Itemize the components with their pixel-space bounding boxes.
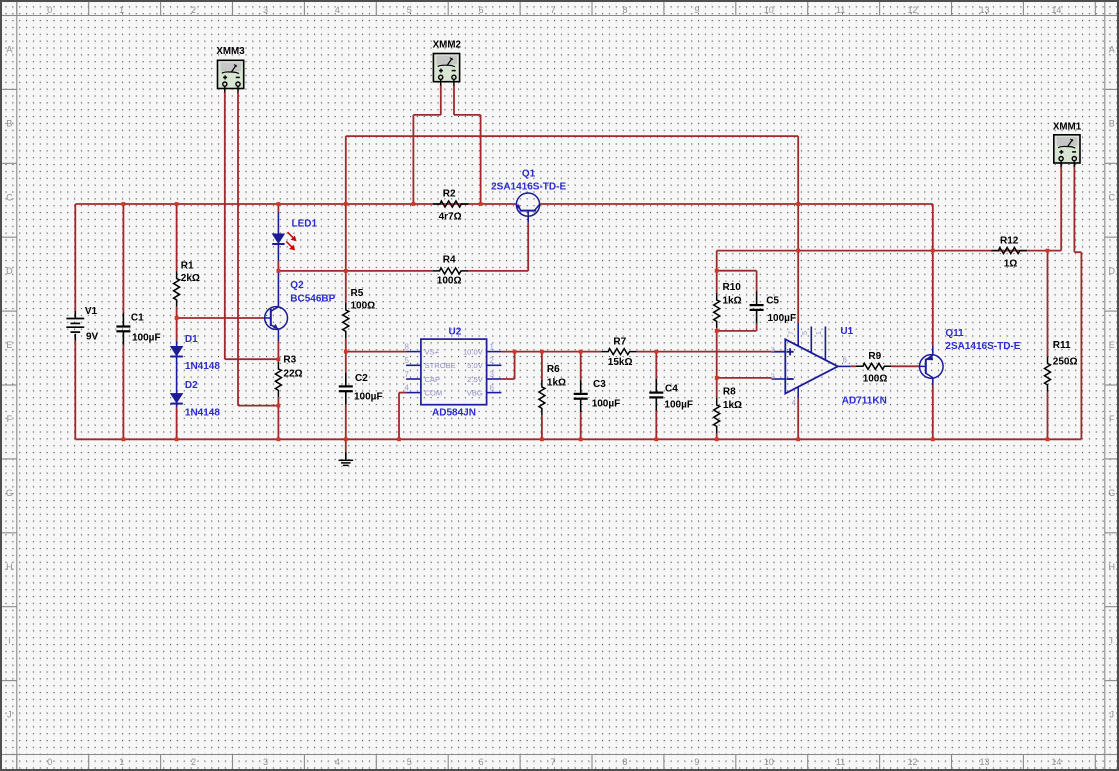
svg-text:14: 14 xyxy=(1051,5,1061,15)
svg-text:7: 7 xyxy=(551,757,556,767)
svg-text:11: 11 xyxy=(836,5,845,15)
svg-text:13: 13 xyxy=(979,5,989,15)
svg-text:9: 9 xyxy=(694,757,699,767)
svg-text:R4: R4 xyxy=(443,255,456,266)
svg-text:R7: R7 xyxy=(613,337,626,348)
svg-text:0: 0 xyxy=(47,5,52,15)
svg-text:3: 3 xyxy=(263,5,268,15)
svg-text:R12: R12 xyxy=(1000,236,1019,247)
svg-text:8: 8 xyxy=(622,757,627,767)
svg-text:G: G xyxy=(6,488,13,498)
svg-text:F: F xyxy=(7,414,13,424)
svg-text:H: H xyxy=(1109,562,1116,572)
svg-text:C1: C1 xyxy=(131,313,144,324)
svg-text:12: 12 xyxy=(908,757,918,767)
svg-text:3: 3 xyxy=(771,345,775,354)
svg-text:AD584JN: AD584JN xyxy=(432,408,476,419)
svg-text:B: B xyxy=(6,118,12,128)
svg-text:CAP: CAP xyxy=(425,375,441,384)
svg-text:22Ω: 22Ω xyxy=(283,369,302,380)
svg-text:H: H xyxy=(6,562,13,572)
svg-text:4: 4 xyxy=(335,5,340,15)
svg-text:100µF: 100µF xyxy=(354,392,383,403)
svg-text:1: 1 xyxy=(814,331,823,335)
svg-text:G: G xyxy=(1108,488,1115,498)
svg-text:J: J xyxy=(7,710,12,720)
svg-text:6: 6 xyxy=(843,356,848,365)
svg-text:I: I xyxy=(1111,636,1114,646)
svg-text:D1: D1 xyxy=(185,334,198,345)
svg-text:100Ω: 100Ω xyxy=(437,276,462,287)
svg-text:8: 8 xyxy=(405,342,410,351)
svg-text:J: J xyxy=(1110,710,1115,720)
svg-text:C4: C4 xyxy=(665,384,678,395)
svg-text:2SA1416S-TD-E: 2SA1416S-TD-E xyxy=(491,182,566,193)
svg-text:VBG: VBG xyxy=(467,388,483,397)
svg-text:9V: 9V xyxy=(86,332,99,343)
svg-text:100µF: 100µF xyxy=(768,313,797,324)
svg-text:5: 5 xyxy=(407,757,412,767)
svg-text:100Ω: 100Ω xyxy=(863,374,888,385)
svg-text:R2: R2 xyxy=(443,189,456,200)
svg-text:C5: C5 xyxy=(766,296,779,307)
svg-text:100µF: 100µF xyxy=(132,333,161,344)
svg-text:2SA1416S-TD-E: 2SA1416S-TD-E xyxy=(945,341,1020,352)
svg-text:2: 2 xyxy=(191,757,196,767)
svg-text:5: 5 xyxy=(407,5,412,15)
svg-text:7: 7 xyxy=(551,5,556,15)
svg-text:2: 2 xyxy=(191,5,196,15)
svg-text:6: 6 xyxy=(479,757,484,767)
svg-text:Q11: Q11 xyxy=(945,328,964,339)
svg-text:1kΩ: 1kΩ xyxy=(723,400,742,411)
svg-text:VS+: VS+ xyxy=(425,347,440,356)
svg-text:7: 7 xyxy=(787,331,796,335)
svg-text:C: C xyxy=(1109,192,1116,202)
svg-text:6: 6 xyxy=(479,5,484,15)
svg-text:D2: D2 xyxy=(185,380,198,391)
svg-text:D: D xyxy=(1109,266,1116,276)
svg-text:100µF: 100µF xyxy=(592,399,621,410)
svg-text:100µF: 100µF xyxy=(664,400,693,411)
svg-text:E: E xyxy=(1109,340,1115,350)
svg-text:12: 12 xyxy=(908,5,918,15)
svg-text:COM: COM xyxy=(425,388,443,397)
svg-text:AD711KN: AD711KN xyxy=(842,396,887,407)
svg-text:6: 6 xyxy=(490,383,495,392)
svg-text:D: D xyxy=(6,266,13,276)
svg-text:Q2: Q2 xyxy=(290,280,304,291)
svg-text:R1: R1 xyxy=(181,261,194,272)
svg-text:2kΩ: 2kΩ xyxy=(181,273,200,284)
svg-text:C2: C2 xyxy=(355,373,368,384)
svg-text:4r7Ω: 4r7Ω xyxy=(439,212,462,223)
svg-text:1kΩ: 1kΩ xyxy=(723,296,742,307)
svg-text:9: 9 xyxy=(694,5,699,15)
svg-text:1kΩ: 1kΩ xyxy=(547,378,566,389)
svg-text:1N4148: 1N4148 xyxy=(185,408,220,419)
svg-text:2: 2 xyxy=(490,356,495,365)
svg-text:14: 14 xyxy=(1051,757,1061,767)
svg-text:1: 1 xyxy=(119,757,124,767)
svg-text:A: A xyxy=(6,44,12,54)
svg-text:7: 7 xyxy=(405,370,410,379)
svg-text:R9: R9 xyxy=(868,351,881,362)
svg-text:5: 5 xyxy=(800,331,809,335)
svg-text:100Ω: 100Ω xyxy=(351,301,376,312)
svg-text:XMM3: XMM3 xyxy=(216,46,245,57)
svg-text:R11: R11 xyxy=(1053,340,1071,351)
svg-text:LED1: LED1 xyxy=(292,219,318,230)
svg-text:R5: R5 xyxy=(351,288,364,299)
svg-text:13: 13 xyxy=(979,757,989,767)
svg-text:2: 2 xyxy=(771,371,775,380)
svg-text:Q1: Q1 xyxy=(522,169,536,180)
svg-text:0: 0 xyxy=(47,757,52,767)
svg-text:8: 8 xyxy=(622,5,627,15)
svg-text:10.0V: 10.0V xyxy=(463,347,484,356)
svg-text:R3: R3 xyxy=(283,355,296,366)
svg-text:1: 1 xyxy=(119,5,124,15)
svg-text:3: 3 xyxy=(263,757,268,767)
svg-text:XMM2: XMM2 xyxy=(433,40,462,51)
svg-text:2.5V: 2.5V xyxy=(467,375,484,384)
svg-text:U2: U2 xyxy=(449,327,462,338)
svg-text:10: 10 xyxy=(764,5,774,15)
svg-text:STROBE: STROBE xyxy=(425,361,456,370)
svg-text:4: 4 xyxy=(405,383,410,392)
svg-text:10: 10 xyxy=(764,757,774,767)
svg-text:R6: R6 xyxy=(547,364,560,375)
svg-text:5.0V: 5.0V xyxy=(467,361,484,370)
svg-text:11: 11 xyxy=(836,757,845,767)
svg-text:4: 4 xyxy=(792,398,797,407)
svg-text:15kΩ: 15kΩ xyxy=(608,357,633,368)
svg-text:F: F xyxy=(1109,414,1115,424)
svg-text:R10: R10 xyxy=(723,282,742,293)
svg-text:I: I xyxy=(8,636,11,646)
svg-text:R8: R8 xyxy=(723,387,736,398)
svg-text:1Ω: 1Ω xyxy=(1004,259,1018,270)
svg-text:XMM1: XMM1 xyxy=(1053,122,1082,133)
svg-text:E: E xyxy=(6,340,12,350)
svg-text:BC546BP: BC546BP xyxy=(290,294,335,305)
svg-text:B: B xyxy=(1109,118,1115,128)
svg-text:3: 3 xyxy=(490,370,495,379)
svg-text:V1: V1 xyxy=(85,306,98,317)
svg-text:4: 4 xyxy=(335,757,340,767)
svg-text:A: A xyxy=(1109,44,1115,54)
svg-text:C: C xyxy=(6,192,13,202)
svg-text:U1: U1 xyxy=(840,326,853,337)
svg-text:5: 5 xyxy=(405,356,410,365)
svg-text:1: 1 xyxy=(490,342,495,351)
svg-text:250Ω: 250Ω xyxy=(1053,357,1078,368)
svg-text:1N4148: 1N4148 xyxy=(185,361,220,372)
svg-text:C3: C3 xyxy=(593,379,606,390)
